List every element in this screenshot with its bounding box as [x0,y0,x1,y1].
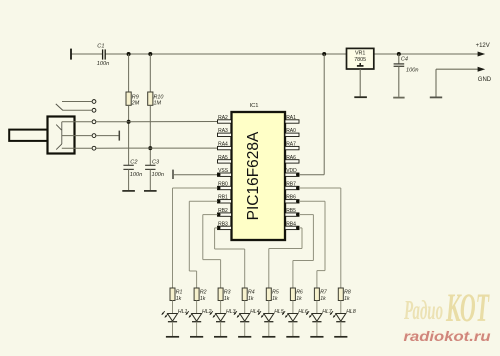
svg-text:RA6: RA6 [286,155,296,161]
svg-text:R9: R9 [132,94,139,100]
svg-text:R1: R1 [176,290,183,296]
svg-text:C2: C2 [130,160,138,166]
svg-text:RA2: RA2 [218,115,228,121]
svg-text:+12V: +12V [476,43,490,49]
svg-text:HL8: HL8 [346,309,356,315]
svg-text:RA4: RA4 [218,142,228,148]
svg-text:7805: 7805 [354,57,366,63]
svg-text:100n: 100n [406,67,418,73]
svg-text:1k: 1k [272,296,278,302]
svg-text:C3: C3 [152,160,160,166]
svg-text:R7: R7 [320,290,328,296]
svg-text:1k: 1k [200,296,206,302]
svg-text:R5: R5 [272,290,279,296]
svg-text:RB6: RB6 [286,195,296,201]
svg-text:1k: 1k [320,296,326,302]
svg-text:VSS: VSS [218,168,229,174]
svg-text:1k: 1k [296,296,302,302]
svg-text:PIC16F628A: PIC16F628A [245,131,262,220]
svg-text:RA7: RA7 [286,142,296,148]
svg-text:100n: 100n [130,172,142,178]
svg-text:100n: 100n [152,172,164,178]
svg-text:RA0: RA0 [286,128,296,134]
svg-text:Радио: Радио [403,296,443,326]
svg-text:R2: R2 [200,290,207,296]
svg-text:IC1: IC1 [250,103,259,109]
svg-text:R8: R8 [344,290,351,296]
svg-text:R10: R10 [154,94,164,100]
svg-text:КОТ: КОТ [445,286,490,330]
svg-text:RB7: RB7 [286,181,296,187]
svg-text:HL7: HL7 [322,309,333,315]
svg-text:RA1: RA1 [286,115,296,121]
svg-text:100n: 100n [97,61,109,67]
svg-text:VR1: VR1 [355,51,366,57]
svg-text:1k: 1k [176,296,182,302]
svg-text:radiokot.ru: radiokot.ru [404,329,492,344]
svg-text:VDD: VDD [286,168,297,174]
svg-text:RB5: RB5 [286,208,296,214]
svg-text:1k: 1k [248,296,254,302]
svg-text:RA3: RA3 [218,128,228,134]
svg-text:C4: C4 [401,57,408,63]
svg-text:C1: C1 [97,43,104,49]
svg-text:RA5: RA5 [218,155,228,161]
svg-text:GND: GND [478,77,492,83]
svg-text:RB4: RB4 [286,221,296,227]
svg-text:1M: 1M [154,101,162,107]
svg-text:R6: R6 [296,290,303,296]
svg-text:1k: 1k [224,296,230,302]
svg-text:R3: R3 [224,290,231,296]
svg-text:1k: 1k [344,296,350,302]
svg-text:2M: 2M [131,101,140,107]
svg-text:R4: R4 [248,290,255,296]
